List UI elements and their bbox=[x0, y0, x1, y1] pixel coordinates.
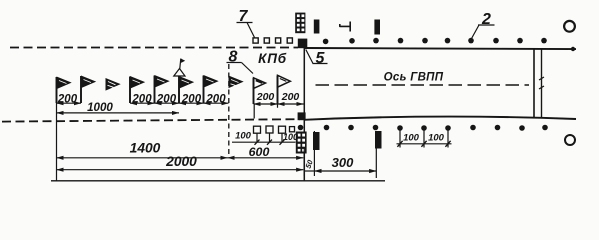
tee symbol between top bars bbox=[340, 22, 351, 32]
wire: runway threshold vertical line bbox=[303, 48, 305, 181]
lamp dots row above top runway edge bbox=[323, 38, 547, 44]
wire: bottom runway edge solid line bbox=[304, 117, 576, 120]
dimension 1000 bbox=[57, 101, 180, 114]
marker bar top 1 bbox=[314, 20, 320, 34]
flag F3 (no pole) bbox=[106, 78, 121, 91]
svg-text:200: 200 bbox=[281, 91, 300, 103]
lamp dots row below bottom runway edge bbox=[298, 125, 548, 131]
wire: runway axis dash-dot centerline bbox=[316, 84, 530, 86]
dimension 2000 bbox=[57, 154, 304, 170]
flag F1 with pole bbox=[57, 77, 72, 104]
dimension 200 segment 7 bbox=[278, 91, 304, 104]
node: end dot of top runway edge bbox=[571, 47, 575, 51]
label 7 with leader bbox=[237, 8, 255, 38]
extension drop below segment 6 start bbox=[254, 104, 277, 119]
small open squares row (item 7) bbox=[253, 38, 292, 43]
flag F6 with pole bbox=[179, 76, 194, 103]
flag F2 with pole bbox=[81, 76, 96, 104]
circle landmark top right bbox=[564, 21, 575, 32]
marker bar top 2 bbox=[374, 20, 380, 35]
svg-text:1400: 1400 bbox=[130, 141, 161, 156]
dimension 100 pair at stems bbox=[232, 131, 298, 145]
svg-text:5: 5 bbox=[316, 50, 326, 67]
flag F10 outline style with pole bbox=[278, 75, 291, 104]
svg-text:300: 300 bbox=[332, 155, 354, 170]
dimension 200 segment 3 bbox=[155, 93, 180, 105]
label 2 with underline and leader bbox=[472, 11, 495, 38]
node: threshold bottom junction filled square bbox=[298, 112, 306, 120]
svg-text:100: 100 bbox=[403, 132, 420, 143]
wire: extension line at x=378 bbox=[375, 149, 377, 179]
dimension 200 segment 4 bbox=[179, 93, 204, 105]
svg-text:200: 200 bbox=[131, 93, 152, 105]
dimension 600 bbox=[228, 145, 304, 159]
wire: boundary vertical line with break ticks bbox=[541, 49, 543, 119]
wire: extension line at x=316 bbox=[304, 131, 314, 176]
svg-text:100: 100 bbox=[428, 132, 445, 143]
dimension 50 (rotated label) bbox=[303, 158, 315, 171]
svg-text:600: 600 bbox=[249, 145, 270, 159]
dimension 200 segment 2 bbox=[130, 93, 155, 105]
node: threshold top junction filled square bbox=[298, 39, 308, 49]
svg-text:200: 200 bbox=[156, 93, 177, 105]
dimension 1400 bbox=[57, 141, 228, 158]
grid symbol top (light panel) bbox=[295, 13, 305, 34]
circle landmark bottom right bbox=[565, 135, 575, 145]
dimension 200 segment 6 bbox=[254, 91, 278, 104]
wire: vertical dashed line at 1400 mark bbox=[228, 64, 230, 158]
dimension 200 segment 5 bbox=[204, 93, 229, 105]
marker bar bottom 1 bbox=[313, 132, 320, 150]
dimension 100-100 right group extension lines bbox=[400, 131, 448, 148]
svg-text:50: 50 bbox=[303, 158, 315, 170]
dimension 200 segment 1 bbox=[57, 93, 82, 105]
wire: runway far end vertical line bbox=[533, 48, 535, 118]
svg-text:Ось ГВПП: Ось ГВПП bbox=[384, 72, 444, 84]
wire: mid approach edge dashed line bbox=[2, 119, 300, 121]
svg-text:1000: 1000 bbox=[87, 101, 113, 114]
svg-text:КПб: КПб bbox=[258, 51, 287, 66]
svg-text:100: 100 bbox=[283, 132, 298, 142]
flag F5 with pole bbox=[155, 75, 170, 103]
grid symbol bottom (light panel) bbox=[296, 132, 307, 154]
svg-text:200: 200 bbox=[205, 93, 226, 105]
wire: bottom baseline bbox=[51, 180, 385, 182]
flag F9 outline style with pole bbox=[254, 78, 266, 104]
svg-text:200: 200 bbox=[181, 93, 202, 105]
wire: top approach edge dashed line bbox=[10, 47, 298, 49]
dimension 300 bbox=[314, 155, 376, 171]
label 5 with underline and leader bbox=[306, 50, 328, 68]
label 8 with underline and dashed mark line bbox=[227, 49, 254, 74]
svg-text:100: 100 bbox=[235, 131, 252, 142]
beacon symbol above flag F6 bbox=[174, 59, 185, 77]
wire: extension line at x=56.5 bbox=[56, 103, 58, 181]
flag F8 (no pole, above dashed mark line) bbox=[229, 76, 244, 89]
dimension 100 right b bbox=[428, 132, 445, 143]
marker bar bottom 2 bbox=[375, 131, 382, 149]
flag F7 with pole bbox=[204, 75, 219, 103]
flag F4 with pole bbox=[130, 76, 145, 103]
wire: top runway edge solid line bbox=[304, 48, 576, 49]
svg-text:2000: 2000 bbox=[165, 154, 197, 169]
svg-text:200: 200 bbox=[256, 91, 275, 103]
dimension 100 right a bbox=[397, 132, 452, 147]
open-square lights row with stems (item 8 group) bbox=[254, 126, 295, 142]
svg-text:200: 200 bbox=[57, 93, 78, 105]
